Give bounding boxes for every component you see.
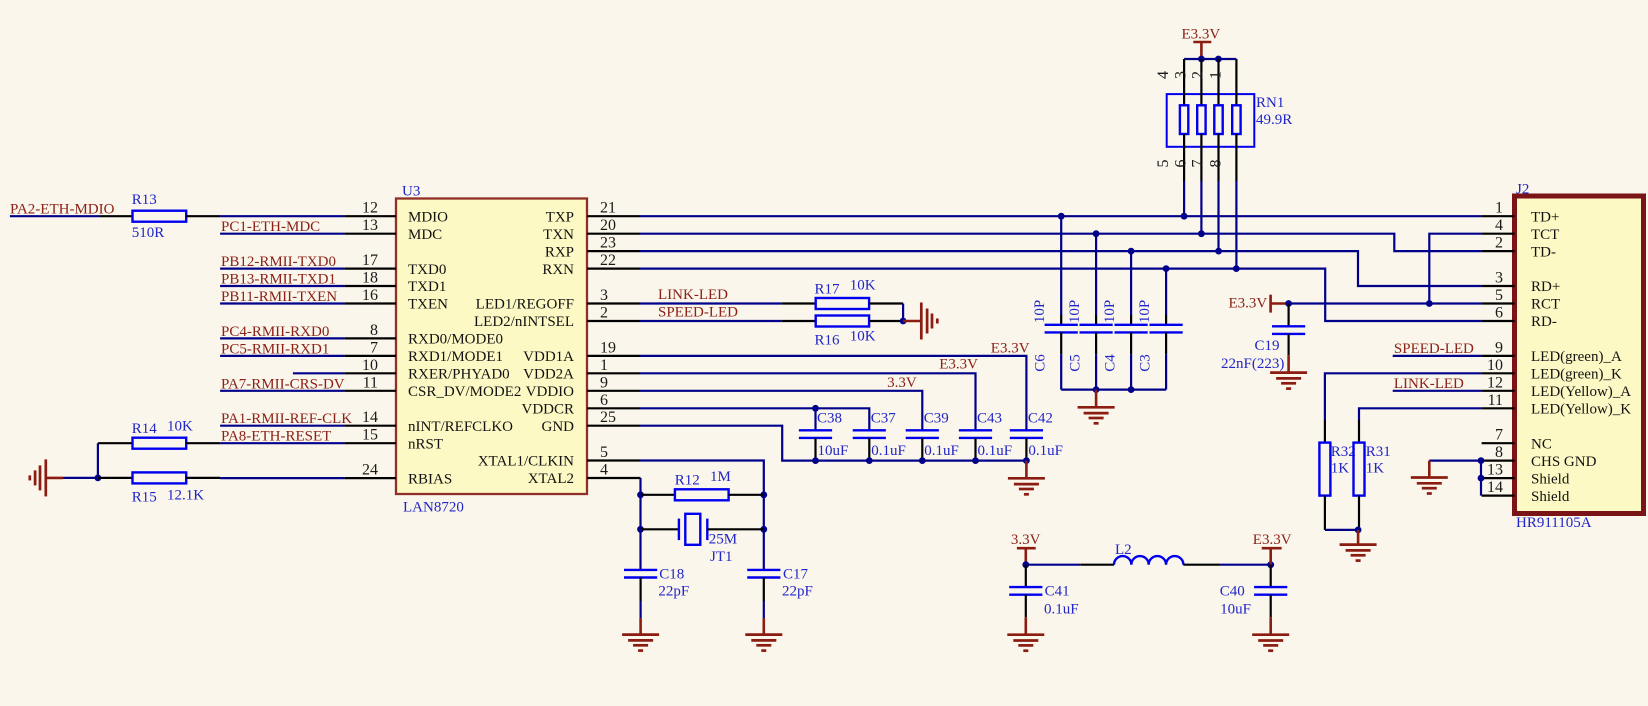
svg-text:3.3V: 3.3V	[1011, 532, 1041, 548]
svg-text:9: 9	[1495, 339, 1503, 356]
svg-text:13: 13	[362, 217, 378, 234]
svg-text:C3: C3	[1138, 354, 1154, 372]
J2 pin 12 LED(Yellow)_A	[1482, 390, 1515, 392]
wire XTAL1 net	[640, 461, 764, 495]
svg-text:13: 13	[1487, 462, 1503, 479]
svg-text:0.1uF: 0.1uF	[1028, 443, 1063, 459]
svg-text:LINK-LED: LINK-LED	[658, 287, 728, 303]
svg-text:7: 7	[1190, 160, 1207, 168]
U3 pin 19 VDD1A (right)	[587, 355, 640, 357]
svg-text:LED1/REGOFF: LED1/REGOFF	[476, 297, 574, 313]
svg-text:8: 8	[1495, 444, 1503, 461]
J2 pin 5 RCT	[1482, 302, 1515, 304]
svg-text:RXD0/MODE0: RXD0/MODE0	[408, 332, 503, 348]
svg-text:10K: 10K	[850, 329, 876, 345]
ground (C18)	[622, 635, 659, 651]
U3 pin 23 RXP (right)	[587, 250, 640, 252]
wire R15 to U3 pin 24	[220, 477, 344, 479]
capacitor C3 10P	[1165, 269, 1167, 315]
wire RN1 common	[1184, 58, 1236, 60]
svg-text:GND: GND	[542, 419, 575, 435]
svg-text:22nF(223): 22nF(223)	[1221, 356, 1284, 372]
wire VDD2A rail	[640, 373, 976, 430]
svg-text:R16: R16	[815, 333, 841, 349]
svg-text:C19: C19	[1255, 338, 1280, 354]
svg-text:C43: C43	[977, 411, 1002, 427]
svg-text:VDDCR: VDDCR	[521, 402, 574, 418]
svg-text:1: 1	[1207, 71, 1224, 79]
svg-text:E3.3V: E3.3V	[1182, 27, 1221, 43]
wire crystal row	[639, 495, 641, 530]
svg-text:MDIO: MDIO	[408, 209, 448, 225]
svg-text:XTAL2: XTAL2	[528, 471, 574, 487]
wire J2 pin 11 to R31	[1359, 408, 1482, 420]
wire node up to R14 row	[97, 443, 99, 478]
svg-text:CSR_DV/MODE2: CSR_DV/MODE2	[408, 384, 521, 400]
svg-text:C6: C6	[1033, 354, 1049, 372]
node C41/L2	[1022, 561, 1029, 568]
J2 pin 10 LED(green)_K	[1482, 372, 1515, 374]
J2 pin 9 LED(green)_A	[1482, 355, 1515, 357]
capacitor C40 10uF	[1270, 565, 1272, 587]
svg-text:C4: C4	[1103, 354, 1119, 372]
wire ground to node	[46, 477, 63, 480]
wire L2 to E3.3V node	[1183, 564, 1220, 566]
capacitor C6 10P	[1060, 216, 1062, 315]
ground (C3-C6)	[1095, 390, 1098, 408]
wire PC5-RMII-RXD1	[220, 355, 344, 357]
svg-text:TCT: TCT	[1531, 227, 1559, 243]
wire VDDCR rail	[640, 408, 869, 430]
svg-text:RXN: RXN	[542, 262, 574, 278]
svg-text:25M: 25M	[709, 532, 737, 548]
svg-text:12: 12	[1487, 374, 1503, 391]
svg-text:0.1uF: 0.1uF	[1044, 602, 1079, 618]
svg-text:0.1uF: 0.1uF	[871, 443, 906, 459]
svg-text:14: 14	[362, 409, 378, 426]
ground (C17)	[745, 635, 782, 651]
svg-text:L2: L2	[1115, 542, 1132, 558]
svg-text:R17: R17	[815, 282, 841, 298]
svg-text:C42: C42	[1028, 411, 1053, 427]
svg-text:LED(Yellow)_A: LED(Yellow)_A	[1531, 384, 1631, 400]
capacitor C5 10P	[1095, 234, 1097, 315]
svg-text:RXER/PHYAD0: RXER/PHYAD0	[408, 367, 510, 383]
svg-text:MDC: MDC	[408, 227, 442, 243]
capacitor C19 22nF(223)	[1285, 300, 1292, 307]
U3 pin 22 RXN (right)	[587, 268, 640, 270]
capacitor C4 10P	[1130, 251, 1132, 315]
ground (C42 / GND bus)	[1025, 461, 1028, 479]
svg-text:TD-: TD-	[1531, 244, 1556, 260]
svg-text:C37: C37	[871, 411, 897, 427]
wire LED2 to R16	[640, 320, 782, 322]
svg-text:JT1: JT1	[710, 549, 733, 565]
J2 pin 14 Shield	[1482, 495, 1515, 497]
capacitor C41 0.1uF	[1025, 565, 1027, 587]
U3 pin 21 TXP (right)	[587, 215, 640, 217]
RN1 element 1	[1183, 59, 1185, 105]
U3 pin 8 RXD0/MODE0 (left)	[344, 337, 396, 339]
svg-text:E3.3V: E3.3V	[1229, 296, 1268, 312]
svg-text:10P: 10P	[1102, 300, 1118, 323]
svg-text:1: 1	[600, 357, 608, 374]
svg-text:RXP: RXP	[545, 244, 574, 260]
svg-text:8: 8	[370, 322, 378, 339]
U3 pin 18 TXD1 (left)	[344, 285, 396, 287]
resistor network RN1 49.9R	[1167, 94, 1255, 147]
svg-text:TXEN: TXEN	[408, 297, 448, 313]
svg-text:2: 2	[600, 305, 608, 322]
U3 pin 9 VDDIO (right)	[587, 390, 640, 392]
svg-text:0.1uF: 0.1uF	[924, 443, 959, 459]
svg-text:21: 21	[600, 200, 616, 217]
svg-text:3: 3	[1172, 71, 1189, 79]
svg-text:TXP: TXP	[546, 209, 574, 225]
wire PA2-ETH-MDIO	[10, 215, 100, 217]
svg-text:C18: C18	[659, 567, 684, 583]
wire R32/R31 common	[1325, 529, 1358, 531]
svg-text:J2: J2	[1516, 182, 1529, 198]
wires RN1 to TX/RX rows	[1183, 181, 1185, 216]
ground (C19)	[1270, 373, 1307, 389]
wire TXP net (U3 21 to J2 TD+)	[640, 215, 1482, 217]
svg-text:TD+: TD+	[1531, 209, 1559, 225]
U3 pin 14 nINT/REFCLKO (left)	[344, 425, 396, 427]
svg-text:7: 7	[1495, 427, 1503, 444]
U3 pin 2 LED2/nINTSEL (right)	[587, 320, 640, 322]
svg-text:0.1uF: 0.1uF	[978, 443, 1013, 459]
svg-text:14: 14	[1487, 479, 1503, 496]
svg-text:LINK-LED: LINK-LED	[1394, 376, 1464, 392]
svg-text:LED2/nINTSEL: LED2/nINTSEL	[474, 314, 574, 330]
J2 pin 2 TD-	[1482, 250, 1515, 252]
resistor R12 1M	[641, 494, 675, 496]
svg-text:R15: R15	[132, 490, 157, 506]
svg-text:RN1: RN1	[1256, 95, 1284, 111]
wire RXN net (U3 22 to J2 RD-)	[640, 269, 1482, 321]
wire XTAL2 net	[639, 478, 641, 495]
capacitor C17 22pF	[763, 529, 765, 570]
J2 HR911105A connector body	[1515, 196, 1644, 514]
svg-text:RCT: RCT	[1531, 297, 1560, 313]
resistor R15 12.1K	[98, 477, 133, 479]
inductor L2	[1114, 556, 1183, 565]
wire PA8-ETH-RESET	[220, 442, 344, 444]
U3 pin 5 XTAL1/CLKIN	[587, 459, 640, 461]
wire R13 to U3 pin 12	[220, 215, 344, 217]
svg-text:6: 6	[1495, 305, 1503, 322]
svg-text:E3.3V: E3.3V	[1253, 532, 1292, 548]
wire R17/R16 to ground	[902, 304, 904, 322]
svg-text:VDD1A: VDD1A	[523, 349, 574, 365]
svg-text:RXD1/MODE1: RXD1/MODE1	[408, 349, 503, 365]
svg-text:R32: R32	[1331, 444, 1356, 460]
svg-text:22pF: 22pF	[782, 584, 813, 600]
svg-text:5: 5	[600, 444, 608, 461]
ground (C40)	[1252, 635, 1289, 651]
svg-text:C5: C5	[1068, 354, 1084, 372]
svg-text:10P: 10P	[1032, 300, 1048, 323]
J2 pin 8 CHS GND	[1482, 460, 1515, 462]
wire GND pin routing	[640, 426, 1026, 461]
crystal JT1 25M	[641, 528, 679, 530]
wire PC1-ETH-MDC	[220, 233, 344, 235]
svg-text:nINT/REFCLKO: nINT/REFCLKO	[408, 419, 513, 435]
svg-text:6: 6	[600, 392, 608, 409]
svg-text:5: 5	[1155, 160, 1172, 168]
svg-text:VDDIO: VDDIO	[526, 384, 574, 400]
svg-text:510R: 510R	[132, 225, 165, 241]
ground (J2 shield)	[1428, 461, 1431, 478]
wire LINK-LED to J2 pin 12	[1393, 390, 1482, 392]
svg-text:4: 4	[1155, 71, 1172, 79]
RN1 element 4	[1235, 59, 1237, 105]
svg-text:17: 17	[362, 252, 378, 269]
svg-text:C38: C38	[817, 411, 842, 427]
ground (C41)	[1007, 635, 1044, 651]
svg-text:E3.3V: E3.3V	[939, 357, 978, 373]
RN1 element 3	[1217, 59, 1219, 105]
wire VDD1A rail	[640, 356, 1026, 430]
RN1 element 2	[1200, 59, 1202, 105]
U3 pin 20 TXN (right)	[587, 233, 640, 235]
svg-text:3: 3	[1495, 270, 1503, 287]
svg-text:19: 19	[600, 339, 616, 356]
U3 pin 3 LED1/REGOFF (right)	[587, 302, 640, 304]
svg-text:C41: C41	[1045, 584, 1070, 600]
J2 pin 13 Shield	[1482, 477, 1515, 479]
wire RXP net (U3 23 to J2 RD+)	[640, 251, 1482, 286]
U3 pin 6 VDDCR (right)	[587, 407, 640, 409]
svg-text:25: 25	[600, 409, 616, 426]
svg-text:8: 8	[1207, 160, 1224, 168]
U3 pin 16 TXEN (left)	[344, 302, 396, 304]
svg-text:NC: NC	[1531, 436, 1552, 452]
svg-text:E3.3V: E3.3V	[991, 341, 1030, 357]
U3 pin 17 TXD0 (left)	[344, 268, 396, 270]
svg-text:18: 18	[362, 270, 378, 287]
U3 LAN8720 PHY body	[396, 199, 587, 495]
wire PA1-RMII-REF-CLK	[220, 425, 344, 427]
svg-text:C39: C39	[924, 411, 949, 427]
U3 pin 10 RXER/PHYAD0 (left)	[344, 372, 396, 374]
U3 pin 13 MDC (left)	[344, 233, 396, 235]
wire C38 feed	[814, 408, 816, 430]
svg-text:C17: C17	[783, 567, 809, 583]
svg-text:R12: R12	[675, 473, 700, 489]
U3 pin 1 VDD2A (right)	[587, 372, 640, 374]
svg-text:11: 11	[1488, 392, 1503, 409]
wire PB11-RMII-TXEN	[220, 302, 344, 304]
svg-text:12: 12	[362, 200, 378, 217]
U3 pin 11 CSR_DV/MODE2 (left)	[344, 390, 396, 392]
svg-text:2: 2	[1495, 235, 1503, 252]
svg-text:20: 20	[600, 217, 616, 234]
svg-text:TXD1: TXD1	[408, 279, 446, 295]
wire CHS GND / Shield net	[1429, 460, 1481, 462]
resistor R32 1K	[1324, 420, 1326, 443]
ground (R16/R17)	[921, 303, 937, 340]
U3 pin 12 MDIO (left)	[344, 215, 396, 217]
node C40/L2	[1267, 561, 1274, 568]
svg-text:1: 1	[1495, 200, 1503, 217]
svg-text:SPEED-LED: SPEED-LED	[658, 305, 738, 321]
wire PC4-RMII-RXD0	[220, 337, 344, 339]
svg-text:3: 3	[600, 287, 608, 304]
svg-text:nRST: nRST	[408, 436, 443, 452]
capacitor C37 0.1uF	[853, 429, 886, 431]
capacitor C38 10uF	[799, 429, 832, 431]
svg-text:R13: R13	[132, 192, 157, 208]
resistor R13 510R	[99, 215, 132, 217]
svg-text:U3: U3	[402, 184, 420, 200]
svg-text:1K: 1K	[1331, 461, 1350, 477]
svg-text:RBIAS: RBIAS	[408, 471, 452, 487]
wire TXN net (U3 20 to J2 TD-)	[640, 234, 1482, 251]
svg-text:7: 7	[370, 339, 378, 356]
svg-text:12.1K: 12.1K	[167, 488, 204, 504]
capacitor C42 0.1uF	[1010, 429, 1043, 431]
J2 pin 6 RD-	[1482, 320, 1515, 322]
svg-text:VDD2A: VDD2A	[523, 367, 574, 383]
U3 pin 4 XTAL2	[587, 477, 641, 479]
J2 pin 4 TCT	[1482, 233, 1515, 235]
svg-text:10K: 10K	[850, 278, 876, 294]
resistor R31 1K	[1358, 420, 1360, 443]
J2 pin 7 NC	[1482, 442, 1515, 444]
wire C3-C6 common bus	[1061, 389, 1166, 391]
wire PB13-RMII-TXD1	[220, 285, 344, 287]
svg-text:Shield: Shield	[1531, 471, 1570, 487]
svg-text:LED(green)_K: LED(green)_K	[1531, 367, 1622, 383]
svg-text:SPEED-LED: SPEED-LED	[1394, 341, 1474, 357]
svg-text:1M: 1M	[710, 469, 731, 485]
svg-text:LAN8720: LAN8720	[403, 500, 464, 516]
wire VDDIO rail	[640, 391, 922, 431]
U3 pin 24 RBIAS (left)	[344, 477, 396, 479]
svg-text:16: 16	[362, 287, 378, 304]
J2 pin 1 TD+	[1482, 215, 1515, 217]
svg-text:10: 10	[362, 357, 378, 374]
wire LED1 to R17	[640, 302, 782, 304]
svg-text:22: 22	[600, 252, 616, 269]
svg-text:10P: 10P	[1067, 300, 1083, 323]
svg-text:R14: R14	[132, 421, 158, 437]
svg-text:10K: 10K	[167, 419, 193, 435]
svg-text:TXD0: TXD0	[408, 262, 446, 278]
capacitor C39 0.1uF	[906, 429, 939, 431]
svg-text:R31: R31	[1366, 444, 1391, 460]
svg-text:1K: 1K	[1366, 461, 1385, 477]
svg-text:LED(Yellow)_K: LED(Yellow)_K	[1531, 402, 1631, 418]
svg-text:TXN: TXN	[543, 227, 574, 243]
svg-text:CHS GND: CHS GND	[1531, 454, 1597, 470]
svg-text:15: 15	[362, 427, 378, 444]
wire RCT net (C19 node to J2 RCT)	[1289, 302, 1482, 304]
capacitor C43 0.1uF	[959, 429, 992, 431]
svg-text:6: 6	[1172, 160, 1189, 168]
capacitor C18 22pF	[639, 529, 641, 570]
svg-text:11: 11	[363, 374, 378, 391]
resistor R14 10K	[98, 442, 133, 444]
svg-text:HR911105A: HR911105A	[1516, 515, 1592, 531]
svg-text:5: 5	[1495, 287, 1503, 304]
U3 pin 7 RXD1/MODE1 (left)	[344, 355, 396, 357]
ground (R32/R31)	[1357, 530, 1360, 545]
svg-text:23: 23	[600, 235, 616, 252]
svg-text:Shield: Shield	[1531, 489, 1570, 505]
svg-text:10: 10	[1487, 357, 1503, 374]
svg-text:3.3V: 3.3V	[887, 375, 917, 391]
wire 3.3V to L2	[1026, 564, 1081, 566]
svg-text:XTAL1/CLKIN: XTAL1/CLKIN	[478, 454, 574, 470]
svg-text:10P: 10P	[1137, 300, 1153, 323]
wire U3 pin 10 stub	[293, 372, 345, 374]
svg-text:22pF: 22pF	[658, 584, 689, 600]
resistor R16 10K	[782, 320, 816, 322]
wire SPEED-LED to J2 pin 9	[1393, 355, 1482, 357]
wire TCT to RCT node	[1429, 234, 1481, 304]
svg-text:RD+: RD+	[1531, 279, 1560, 295]
svg-text:4: 4	[1495, 217, 1503, 234]
wire PB12-RMII-TXD0	[220, 268, 344, 270]
node R14/R15 junction	[95, 475, 102, 482]
ground (left, for R14/R15 node)	[30, 459, 46, 496]
svg-text:49.9R: 49.9R	[1256, 112, 1292, 128]
svg-text:10uF: 10uF	[1220, 602, 1251, 618]
J2 pin 11 LED(Yellow)_K	[1482, 407, 1515, 409]
U3 pin 25 GND (right)	[587, 425, 640, 427]
svg-text:2: 2	[1190, 71, 1207, 79]
J2 pin 3 RD+	[1482, 285, 1515, 287]
svg-text:10uF: 10uF	[818, 443, 849, 459]
U3 pin 15 nRST (left)	[344, 442, 396, 444]
svg-text:24: 24	[362, 462, 378, 479]
junction dots TX/RX rows	[1058, 213, 1065, 220]
wire J2 pin 10 to R32	[1325, 373, 1482, 420]
svg-text:4: 4	[600, 462, 608, 479]
svg-text:9: 9	[600, 374, 608, 391]
svg-text:LED(green)_A: LED(green)_A	[1531, 349, 1622, 365]
svg-text:C40: C40	[1220, 584, 1245, 600]
wire PA7-RMII-CRS-DV	[220, 390, 344, 392]
svg-text:RD-: RD-	[1531, 314, 1557, 330]
resistor R17 10K	[782, 302, 816, 304]
